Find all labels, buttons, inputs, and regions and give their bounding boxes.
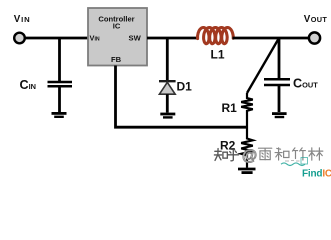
label R2 (220, 139, 236, 153)
ground (D1) (160, 114, 175, 117)
watermark outlined glyphs (258, 148, 322, 160)
watermark zhihu text (214, 149, 238, 161)
inductor L1 (198, 28, 234, 44)
label Controller IC (98, 15, 134, 31)
wire FB run (116, 66, 248, 128)
resistor R1 (241, 93, 253, 127)
pin label SW (129, 33, 142, 42)
svg-text:R1: R1 (222, 101, 238, 115)
label D1 (177, 80, 193, 94)
label VIN (14, 14, 31, 25)
wire feedback diagonal from VOUT node to R1 (247, 38, 279, 93)
label CIN (20, 78, 37, 92)
wire VIN to IC pin VIN (25, 37, 88, 40)
svg-text:FindIC: FindIC (302, 169, 331, 178)
label COUT (293, 77, 318, 91)
svg-text:VIN: VIN (14, 14, 31, 25)
svg-text:SW: SW (129, 33, 142, 42)
node VIN terminal (14, 33, 25, 44)
capacitor COUT (264, 79, 290, 112)
svg-text:VOUT: VOUT (304, 14, 328, 25)
svg-text:@: @ (242, 148, 257, 165)
svg-text:L1: L1 (211, 48, 225, 62)
wire D1 branch (166, 38, 169, 80)
wire SW to L1 (147, 37, 198, 40)
ground (R2) (238, 169, 256, 173)
resistor R2 (241, 127, 253, 168)
wire L1 to VOUT (233, 37, 310, 40)
svg-text:FB: FB (111, 55, 122, 64)
label R1 (222, 101, 238, 115)
label L1 (211, 48, 225, 62)
wire CIN branch (58, 38, 61, 81)
label VOUT (304, 14, 328, 25)
capacitor CIN (48, 82, 73, 112)
controller IC U1 (88, 8, 147, 66)
diode D1 (159, 81, 176, 112)
wire COUT branch (278, 38, 281, 79)
ground (COUT) (272, 114, 287, 117)
watermark at-sign (242, 148, 257, 165)
ground (CIN) (52, 113, 67, 116)
svg-text:D1: D1 (177, 80, 193, 94)
node VOUT terminal (309, 32, 320, 43)
watermark small accents (281, 158, 308, 166)
pin label FB (111, 55, 122, 64)
pin label VIN (90, 33, 100, 42)
svg-text:IC: IC (113, 22, 121, 31)
watermark FindIC logo (302, 169, 331, 180)
